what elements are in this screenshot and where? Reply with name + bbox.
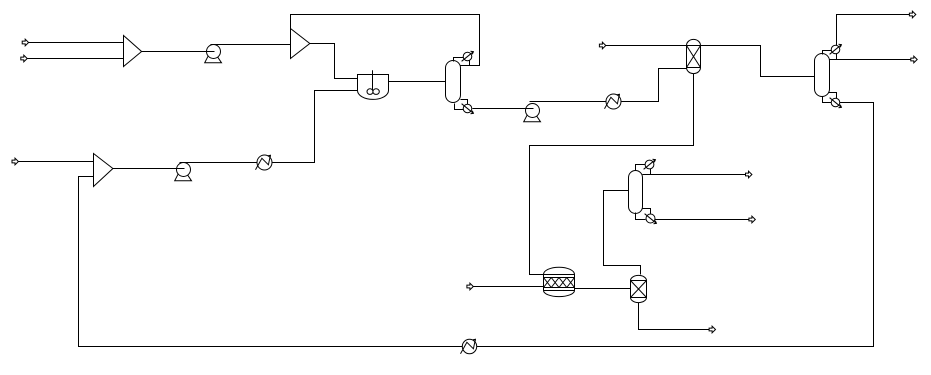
wire PC1 bottoms to reactor R2 top inlet xyxy=(530,74,694,275)
condenser of C2 xyxy=(830,44,842,54)
stream arrow product S10 xyxy=(709,326,715,333)
wire M3 to pump P3 inlet xyxy=(113,168,185,170)
stream arrow feed S2 xyxy=(21,55,27,62)
column C1 body xyxy=(446,61,461,103)
condenser of C1 xyxy=(462,51,474,61)
wire C1 distillate recycle to mixer M2 xyxy=(291,15,480,66)
packed column PC2 xyxy=(631,275,647,302)
wire C2 liquid distillate product xyxy=(830,59,911,61)
wire PC2 overhead to column C3 feed xyxy=(604,191,641,275)
wire P2 discharge to heater H1 xyxy=(530,101,607,103)
wire S1 to mixer M1 xyxy=(29,42,124,44)
wire C3 bottom to reboiler xyxy=(636,213,646,220)
wire M1 to pump P1 inlet xyxy=(142,51,215,53)
wire C2 side to reboiler xyxy=(829,93,837,99)
reboiler of C1 xyxy=(462,104,474,114)
wire P1 discharge to mixer M2 xyxy=(211,44,291,46)
reboiler of C2 xyxy=(830,98,842,108)
wire C1 bottoms to pump P2 xyxy=(473,108,534,110)
mixer M1 xyxy=(124,36,142,67)
wire S2 to mixer M1 xyxy=(28,58,124,60)
reactor R2 packed bed xyxy=(544,267,575,296)
pump P1 xyxy=(205,45,222,63)
wire condenser C1 outlet drop xyxy=(469,61,471,66)
wire C3 distillate product xyxy=(643,174,746,176)
wire S7 to reactor R2 xyxy=(474,286,544,288)
heater H2 xyxy=(256,155,273,170)
pump P3 xyxy=(175,163,192,181)
wire R2 outlet to column PC2 xyxy=(575,288,631,290)
wire P3 discharge to heater H2 xyxy=(180,162,258,164)
stream arrow feed S3 xyxy=(599,42,605,49)
wire C1 side to reboiler xyxy=(461,100,468,105)
wire C2 top to condenser xyxy=(823,51,832,55)
heater H1 xyxy=(605,94,622,109)
stream arrow feed S7 xyxy=(467,283,473,290)
stream arrow feed S1 xyxy=(22,39,28,46)
wire C3 bottoms product xyxy=(655,219,750,221)
pump P2 xyxy=(524,104,541,122)
stream arrow product S9 xyxy=(749,216,755,223)
stream arrow feed S6 xyxy=(12,158,18,165)
wire S6 to mixer M3 xyxy=(19,161,94,163)
wire C3 top to condenser xyxy=(636,165,646,171)
mixer M3 xyxy=(94,154,113,187)
reboiler of C3 xyxy=(645,214,657,224)
wire M2 to reactor R1 xyxy=(310,44,358,79)
wire PC2 bottoms product xyxy=(639,303,710,330)
stream arrow product S8 xyxy=(746,171,752,178)
reactor R1 stirred tank xyxy=(358,70,389,99)
wire C2 vapor product xyxy=(837,15,910,46)
condenser of C3 xyxy=(644,159,656,169)
wire condenser C3 outlet drop xyxy=(650,169,652,175)
wire C2 bottom to reboiler xyxy=(823,97,832,103)
wire H1 to column PC1 bottom inlet xyxy=(622,69,688,102)
wire C1 bottom to reboiler xyxy=(455,104,464,110)
wire C1 top to condenser xyxy=(454,58,464,62)
stream arrow product S5 xyxy=(911,56,917,63)
column C3 body xyxy=(629,171,643,214)
wire C3 side to reboiler xyxy=(643,209,651,214)
wire R1 to column C1 feed xyxy=(389,81,446,83)
wire PC1 overhead to column C2 feed xyxy=(701,46,815,77)
wire C2 bottoms recycle to mixer M3 xyxy=(79,103,874,347)
mixer M2 xyxy=(291,29,310,59)
stream arrow product S4 xyxy=(909,11,915,18)
wire condenser C2 outlet drop xyxy=(836,54,838,60)
wire H2 to reactor R1 lower inlet xyxy=(273,91,358,163)
packed column PC1 xyxy=(687,39,701,73)
column C2 body xyxy=(815,54,830,97)
wire S3 to column PC1 top xyxy=(606,45,688,47)
heater H3 on recycle xyxy=(461,339,477,353)
